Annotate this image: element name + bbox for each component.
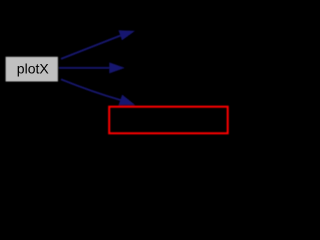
svg-text:plotX: plotX	[17, 60, 50, 76]
